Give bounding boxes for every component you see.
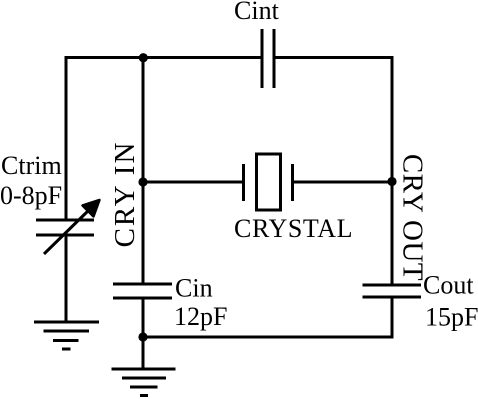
svg-text:CRY IN: CRY IN bbox=[109, 141, 141, 248]
svg-text:CRY OUT: CRY OUT bbox=[397, 154, 429, 281]
svg-text:Cout: Cout bbox=[423, 271, 474, 300]
svg-text:0-8pF: 0-8pF bbox=[0, 181, 62, 210]
svg-text:15pF: 15pF bbox=[425, 303, 478, 332]
svg-text:Ctrim: Ctrim bbox=[1, 151, 62, 180]
svg-text:Cint: Cint bbox=[234, 0, 280, 25]
svg-text:CRYSTAL: CRYSTAL bbox=[234, 214, 353, 243]
svg-text:12pF: 12pF bbox=[174, 302, 227, 331]
svg-text:Cin: Cin bbox=[175, 274, 213, 303]
